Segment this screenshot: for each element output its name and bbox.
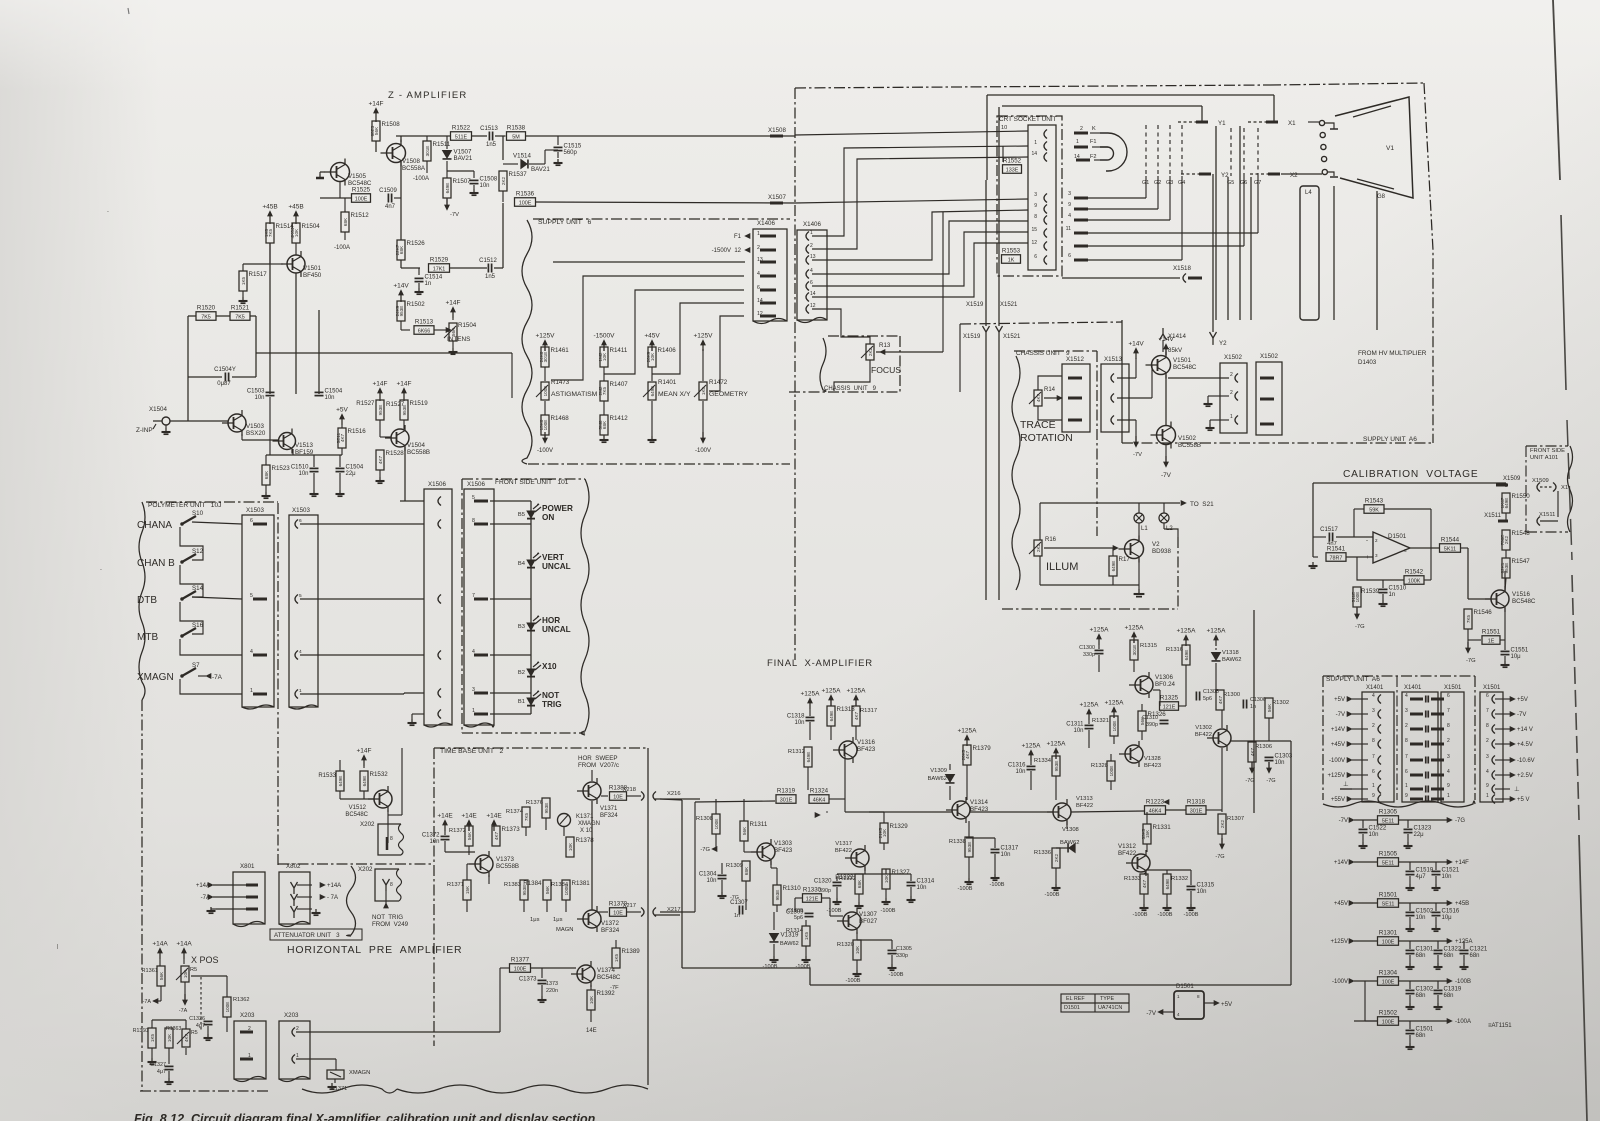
svg-text:68n: 68n	[1416, 993, 1426, 999]
svg-text:V1313: V1313	[1076, 796, 1093, 802]
svg-text:D1501: D1501	[1388, 533, 1407, 540]
svg-text:68n: 68n	[1444, 993, 1454, 999]
svg-text:V1: V1	[1386, 145, 1394, 152]
svg-text:BAW62: BAW62	[928, 776, 947, 782]
svg-text:4K7: 4K7	[854, 711, 859, 720]
svg-text:-100A: -100A	[334, 245, 350, 251]
svg-text:-7V: -7V	[1339, 818, 1348, 824]
svg-text:R1548: R1548	[1512, 530, 1531, 537]
svg-text:-100B: -100B	[958, 886, 973, 892]
svg-text:33K5: 33K5	[1141, 828, 1146, 839]
svg-text:R1325: R1325	[1160, 695, 1179, 702]
svg-text:4: 4	[1068, 213, 1071, 219]
svg-text:V1308: V1308	[1062, 827, 1079, 833]
svg-text:1: 1	[299, 688, 302, 694]
svg-text:1: 1	[250, 688, 253, 694]
svg-text:+125A: +125A	[822, 688, 842, 695]
svg-text:68K: 68K	[264, 470, 269, 479]
svg-text:R1317: R1317	[860, 708, 877, 714]
svg-text:68n: 68n	[1470, 953, 1480, 959]
svg-text:8: 8	[1034, 214, 1037, 220]
svg-text:10K: 10K	[167, 1033, 172, 1042]
svg-text:3: 3	[1034, 192, 1037, 198]
svg-text:BF422: BF422	[1118, 850, 1137, 857]
svg-text:22μ: 22μ	[1414, 832, 1425, 838]
svg-text:20K5: 20K5	[961, 749, 966, 760]
svg-text:V1505: V1505	[348, 173, 366, 180]
svg-text:X202: X202	[358, 866, 373, 873]
svg-text:R1537: R1537	[509, 171, 528, 178]
svg-text:-100B: -100B	[881, 908, 896, 914]
svg-text:R1512: R1512	[351, 212, 370, 219]
svg-text:+14F: +14F	[446, 300, 461, 307]
svg-text:10n: 10n	[794, 720, 804, 726]
svg-text:68n: 68n	[1416, 953, 1426, 959]
svg-text:1: 1	[1447, 793, 1450, 799]
svg-text:FRONT SIDE: FRONT SIDE	[1530, 448, 1565, 454]
svg-text:B1: B1	[518, 699, 525, 705]
svg-text:X10: X10	[542, 662, 557, 671]
svg-text:R1533: R1533	[318, 773, 336, 779]
svg-text:C1322: C1322	[1444, 947, 1462, 953]
svg-text:10K: 10K	[568, 842, 573, 851]
svg-text:R1315: R1315	[1140, 643, 1157, 649]
svg-text:R13: R13	[879, 342, 891, 349]
svg-text:133E: 133E	[1006, 167, 1019, 173]
svg-text:+14F: +14F	[373, 381, 388, 388]
svg-text:-100V: -100V	[1329, 758, 1345, 764]
svg-text:C1304: C1304	[699, 872, 717, 878]
svg-text:C1300: C1300	[1079, 645, 1095, 651]
svg-text:24K0: 24K0	[539, 351, 544, 362]
svg-text:100E: 100E	[1112, 721, 1117, 732]
svg-text:+14A: +14A	[152, 941, 168, 948]
svg-text:100K: 100K	[1408, 578, 1421, 584]
svg-text:L4: L4	[1305, 190, 1312, 196]
svg-text:+5V: +5V	[1517, 697, 1528, 703]
svg-text:1: 1	[1230, 414, 1233, 420]
svg-text:C1517: C1517	[1320, 527, 1338, 533]
svg-text:2: 2	[1372, 723, 1375, 729]
svg-text:X1508: X1508	[768, 127, 786, 134]
svg-text:BF324: BF324	[601, 927, 620, 934]
svg-text:X1521: X1521	[1003, 334, 1021, 340]
svg-text:BC548C: BC548C	[1512, 598, 1536, 605]
svg-text:V1512: V1512	[349, 805, 367, 811]
svg-text:BAW62: BAW62	[780, 941, 799, 947]
svg-text:953E: 953E	[544, 803, 549, 814]
svg-text:C1504: C1504	[325, 389, 343, 395]
svg-text:V1516: V1516	[1512, 591, 1530, 598]
svg-text:649E: 649E	[362, 776, 367, 787]
svg-text:BC558B: BC558B	[407, 449, 430, 456]
svg-text:1: 1	[810, 230, 813, 236]
svg-text:+45B: +45B	[262, 204, 277, 211]
svg-text:X1521: X1521	[1000, 302, 1018, 308]
svg-text:BC558B: BC558B	[1178, 442, 1201, 449]
svg-text:10: 10	[1001, 125, 1007, 131]
svg-text:C1327: C1327	[150, 1062, 166, 1068]
svg-text:R1383: R1383	[504, 882, 521, 888]
svg-text:XMAGN: XMAGN	[349, 1070, 370, 1076]
svg-text:-100V: -100V	[537, 448, 553, 454]
svg-text:C1301: C1301	[1416, 947, 1434, 953]
svg-text:1E: 1E	[1488, 638, 1495, 644]
svg-text:56K: 56K	[451, 327, 456, 336]
svg-text:.: .	[107, 207, 109, 214]
svg-text:X1511: X1511	[1484, 513, 1502, 519]
svg-text:1K47: 1K47	[1500, 497, 1505, 508]
svg-text:X 10: X 10	[580, 828, 593, 834]
svg-text:SUPPLY UNIT A6: SUPPLY UNIT A6	[1326, 676, 1380, 683]
svg-text:1: 1	[1486, 793, 1489, 799]
svg-text:121E: 121E	[806, 896, 819, 902]
svg-text:R1513: R1513	[415, 319, 434, 326]
svg-text:R1372: R1372	[449, 828, 466, 834]
svg-text:X1406: X1406	[803, 221, 821, 228]
svg-text:FROM HV MULTIPLIER: FROM HV MULTIPLIER	[1358, 350, 1427, 357]
svg-text:8: 8	[1197, 994, 1200, 999]
svg-text:X1519: X1519	[966, 302, 984, 308]
svg-text:15K0: 15K0	[539, 419, 544, 430]
svg-text:R16: R16	[1045, 537, 1057, 543]
svg-text:BF324: BF324	[600, 813, 618, 819]
svg-text:5p6: 5p6	[1203, 696, 1212, 702]
svg-text:R1327: R1327	[892, 869, 911, 876]
svg-text:4: 4	[810, 268, 813, 274]
svg-text:5E11: 5E11	[1382, 818, 1394, 824]
svg-text:C1309: C1309	[787, 908, 803, 914]
svg-text:3: 3	[1372, 708, 1375, 714]
svg-text:17K1: 17K1	[433, 266, 446, 272]
svg-text:V1302: V1302	[1195, 725, 1212, 731]
svg-text:C1314: C1314	[917, 879, 935, 885]
svg-text:R1411: R1411	[610, 347, 628, 354]
svg-text:R1528: R1528	[386, 450, 405, 457]
svg-text:BF423: BF423	[1144, 763, 1161, 769]
svg-text:R1334: R1334	[1034, 758, 1052, 764]
svg-text:21K5: 21K5	[878, 827, 883, 838]
svg-text:CHANA: CHANA	[137, 520, 172, 531]
svg-text:R1389: R1389	[622, 948, 641, 955]
svg-text:5: 5	[299, 593, 302, 599]
svg-text:ROTATION: ROTATION	[1020, 432, 1073, 444]
svg-text:G8: G8	[1377, 194, 1386, 200]
svg-text:+125A: +125A	[958, 728, 978, 735]
svg-text:BF423: BF423	[774, 847, 793, 854]
svg-text:+14E: +14E	[437, 813, 453, 820]
svg-text:POLYMETER UNIT 10J: POLYMETER UNIT 10J	[148, 502, 221, 509]
svg-text:V1373: V1373	[496, 856, 514, 863]
svg-text:10μ: 10μ	[1511, 654, 1522, 660]
svg-text:-10.6V: -10.6V	[1517, 758, 1535, 764]
svg-text:C1326: C1326	[189, 1016, 205, 1022]
svg-text:R1392: R1392	[597, 990, 616, 997]
svg-text:649E: 649E	[1165, 879, 1170, 890]
svg-text:C1513: C1513	[480, 126, 498, 132]
svg-text:+125V: +125V	[1330, 939, 1348, 945]
svg-text:1K8: 1K8	[264, 228, 269, 237]
svg-text:V1504: V1504	[407, 442, 425, 449]
svg-text:9: 9	[1068, 202, 1071, 208]
svg-text:R1322: R1322	[839, 876, 856, 882]
svg-text:+14V: +14V	[1158, 336, 1174, 343]
svg-text:10n: 10n	[1073, 728, 1083, 734]
svg-text:6: 6	[757, 285, 760, 291]
svg-text:+125V: +125V	[694, 333, 714, 340]
svg-text:1K5: 1K5	[241, 276, 246, 285]
svg-text:R1550: R1550	[1512, 493, 1531, 500]
svg-text:⊥: ⊥	[1514, 786, 1520, 793]
svg-text:1K5: 1K5	[614, 953, 619, 962]
svg-text:R1373: R1373	[502, 826, 521, 833]
svg-text:R1527: R1527	[356, 400, 375, 407]
svg-text:-7V: -7V	[1161, 472, 1172, 479]
svg-text:301E: 301E	[1132, 645, 1137, 656]
svg-text:7: 7	[1372, 754, 1375, 760]
svg-text:S14: S14	[192, 585, 204, 592]
svg-text:-7G: -7G	[1355, 624, 1365, 630]
svg-text:R1529: R1529	[430, 257, 449, 264]
svg-text:2: 2	[1230, 372, 1233, 378]
svg-text:R1517: R1517	[249, 271, 268, 278]
svg-text:68E3: 68E3	[370, 125, 375, 136]
svg-text:+125V: +125V	[1327, 773, 1345, 779]
svg-text:CHAN B: CHAN B	[137, 558, 175, 569]
svg-text:4μ7: 4μ7	[1416, 874, 1427, 880]
svg-text:UA741CN: UA741CN	[1098, 1005, 1122, 1011]
svg-text:R1338: R1338	[949, 839, 966, 845]
svg-text:EL REF: EL REF	[1066, 996, 1085, 1002]
svg-text:8: 8	[390, 836, 393, 842]
svg-text:10n: 10n	[706, 878, 716, 884]
svg-text:46K4: 46K4	[813, 797, 826, 803]
svg-text:+125A: +125A	[1022, 743, 1042, 750]
svg-text:R1300: R1300	[1223, 692, 1240, 698]
svg-text:4: 4	[1372, 693, 1375, 699]
svg-text:-7G: -7G	[1466, 658, 1476, 664]
svg-text:68K: 68K	[343, 217, 348, 226]
svg-text:3: 3	[1068, 191, 1071, 197]
svg-text:10n: 10n	[429, 839, 439, 845]
svg-text:2: 2	[1447, 738, 1450, 744]
svg-text:X203: X203	[284, 1012, 299, 1019]
svg-text:14E: 14E	[586, 1028, 597, 1034]
svg-text:-7A: -7A	[143, 999, 152, 1005]
svg-text:R1331: R1331	[1153, 824, 1172, 831]
svg-text:V1501: V1501	[303, 265, 321, 272]
svg-text:56K: 56K	[467, 831, 472, 840]
svg-text:C1311: C1311	[1066, 722, 1084, 728]
svg-text:560p: 560p	[564, 150, 578, 156]
svg-text:XMAGN: XMAGN	[137, 672, 174, 683]
svg-text:4K7: 4K7	[184, 1033, 189, 1042]
svg-text:BD938: BD938	[1152, 548, 1171, 555]
svg-text:-100B: -100B	[827, 908, 842, 914]
svg-text:TRACE: TRACE	[1020, 419, 1056, 431]
svg-text:953E: 953E	[402, 405, 407, 416]
svg-text:R1308: R1308	[696, 816, 713, 822]
svg-text:X1512: X1512	[1066, 356, 1084, 363]
svg-text:56K: 56K	[545, 885, 550, 894]
svg-text:2K2: 2K2	[1054, 853, 1059, 862]
svg-text:-7G: -7G	[730, 895, 739, 901]
svg-text:-7V: -7V	[450, 212, 459, 218]
svg-text:X1502: X1502	[1224, 354, 1242, 361]
svg-text:+125A: +125A	[801, 691, 821, 698]
svg-text:56K: 56K	[159, 971, 164, 980]
svg-text:BAW62: BAW62	[1222, 657, 1241, 663]
svg-text:R1363: R1363	[166, 1026, 181, 1032]
svg-text:BF0.24: BF0.24	[1155, 681, 1176, 688]
svg-text:R1362: R1362	[233, 997, 249, 1003]
svg-text:X216: X216	[667, 791, 681, 797]
svg-text:6: 6	[1404, 548, 1407, 553]
svg-text:X1518: X1518	[1173, 265, 1191, 272]
svg-text:10K: 10K	[183, 969, 188, 978]
svg-text:R1504: R1504	[458, 322, 477, 329]
svg-text:CALIBRATION VOLTAGE: CALIBRATION VOLTAGE	[1343, 469, 1478, 480]
svg-text:10n: 10n	[1197, 889, 1207, 895]
svg-text:R1521: R1521	[231, 305, 250, 312]
svg-text:R1305: R1305	[1379, 809, 1398, 816]
svg-text:FROM V249: FROM V249	[372, 921, 409, 928]
svg-text:C1510: C1510	[1389, 586, 1407, 592]
svg-text:R1551: R1551	[1482, 629, 1501, 636]
svg-text:+45V: +45V	[644, 333, 660, 340]
svg-text:BAV21: BAV21	[531, 166, 550, 173]
svg-text:11: 11	[1066, 226, 1071, 232]
svg-text:B3: B3	[518, 624, 525, 630]
svg-text:2: 2	[296, 1026, 299, 1032]
svg-text:1n: 1n	[734, 913, 740, 919]
svg-text:FRONT SIDE UNIT 101: FRONT SIDE UNIT 101	[495, 479, 569, 486]
svg-text:1K5: 1K5	[804, 931, 809, 940]
svg-text:V1372: V1372	[601, 920, 619, 927]
svg-text:X1509: X1509	[1503, 476, 1521, 482]
svg-text:2: 2	[248, 1026, 251, 1032]
svg-text:X1406: X1406	[757, 220, 775, 227]
svg-text:+2.5V: +2.5V	[1517, 773, 1533, 779]
svg-text:V1312: V1312	[1118, 843, 1136, 850]
svg-text:8: 8	[1447, 723, 1450, 729]
svg-text:L1: L1	[1141, 526, 1148, 532]
svg-text:7: 7	[1447, 708, 1450, 714]
svg-text:V1514: V1514	[513, 153, 531, 160]
svg-text:12: 12	[810, 303, 816, 309]
svg-text:-7V: -7V	[1336, 712, 1345, 718]
svg-text:1K5: 1K5	[150, 1033, 155, 1042]
svg-text:68n: 68n	[1416, 1033, 1426, 1039]
svg-text:2: 2	[1405, 723, 1408, 729]
svg-text:+14F: +14F	[369, 101, 384, 108]
svg-text:9: 9	[1372, 793, 1375, 799]
svg-text:1n: 1n	[1389, 592, 1396, 598]
svg-text:10μ: 10μ	[1442, 915, 1453, 921]
svg-text:C1303: C1303	[1275, 754, 1293, 760]
svg-text:BF423: BF423	[857, 746, 876, 753]
svg-text:V1503: V1503	[246, 423, 264, 430]
svg-text:4K7: 4K7	[378, 455, 383, 464]
svg-text:X1513: X1513	[1104, 356, 1122, 363]
svg-text:V1513: V1513	[295, 442, 313, 449]
svg-text:V2: V2	[1152, 541, 1160, 548]
svg-text:C1522: C1522	[1369, 826, 1387, 832]
svg-text:-100B: -100B	[1455, 979, 1471, 985]
svg-text:S16: S16	[192, 622, 204, 629]
svg-text:-7A: -7A	[179, 1008, 188, 1014]
svg-text:X POS: X POS	[191, 955, 219, 965]
svg-text:R1522: R1522	[452, 125, 471, 132]
svg-text:R1539: R1539	[1361, 588, 1380, 595]
svg-text:68n: 68n	[1444, 953, 1454, 959]
svg-text:X1506: X1506	[467, 481, 485, 488]
svg-text:+14F: +14F	[397, 381, 412, 388]
svg-text:3: 3	[1405, 708, 1408, 714]
svg-text:X1504: X1504	[149, 406, 167, 413]
svg-text:D1501: D1501	[1064, 1005, 1080, 1011]
svg-text:C1321: C1321	[1470, 947, 1488, 953]
svg-text:1373: 1373	[546, 981, 558, 987]
svg-text:F1: F1	[734, 234, 742, 240]
svg-text:C1504Y: C1504Y	[214, 367, 236, 373]
svg-text:750E: 750E	[1500, 535, 1505, 546]
svg-text:9: 9	[1405, 793, 1408, 799]
svg-text:+14V: +14V	[393, 283, 409, 290]
svg-text:B4: B4	[518, 561, 526, 567]
svg-text:3: 3	[1375, 553, 1378, 558]
svg-text:Y1: Y1	[1218, 120, 1226, 127]
svg-text:220n: 220n	[546, 988, 558, 994]
svg-text:R1543: R1543	[1365, 498, 1384, 505]
svg-text:8: 8	[1372, 738, 1375, 744]
svg-text:S12: S12	[192, 548, 204, 555]
svg-text:-100A: -100A	[1455, 1019, 1471, 1025]
svg-text:BAW62: BAW62	[1060, 840, 1079, 846]
svg-text:26K9: 26K9	[646, 351, 651, 362]
svg-text:HORIZONTAL PRE AMPLIFIER: HORIZONTAL PRE AMPLIFIER	[287, 944, 462, 956]
svg-text:B2: B2	[518, 670, 525, 676]
svg-text:R1329: R1329	[890, 823, 909, 830]
svg-text:R1532: R1532	[370, 771, 389, 778]
svg-text:R1525: R1525	[352, 187, 371, 194]
svg-text:1n5: 1n5	[485, 274, 496, 280]
svg-text:C1319: C1319	[1444, 987, 1462, 993]
svg-text:4: 4	[1486, 769, 1489, 775]
svg-text:S10: S10	[192, 510, 204, 517]
svg-text:2: 2	[757, 245, 760, 251]
svg-text:+: +	[1366, 555, 1370, 561]
svg-text:C1510: C1510	[291, 465, 309, 471]
svg-text:R1406: R1406	[658, 347, 677, 354]
svg-text:INTENS: INTENS	[447, 336, 470, 343]
svg-text:HOR SWEEP: HOR SWEEP	[578, 755, 618, 762]
svg-text:-100B: -100B	[763, 964, 778, 970]
svg-text:330p: 330p	[1083, 652, 1095, 658]
svg-text:100E: 100E	[514, 966, 527, 972]
svg-text:V1309: V1309	[930, 768, 947, 774]
svg-text:6: 6	[250, 518, 253, 524]
svg-text:649E: 649E	[806, 752, 811, 763]
svg-text:-7G: -7G	[1245, 778, 1254, 784]
svg-text:V1307: V1307	[859, 911, 877, 918]
svg-text:X218: X218	[622, 787, 636, 793]
svg-text:R1332: R1332	[1171, 876, 1188, 882]
svg-text:9: 9	[1447, 783, 1450, 789]
svg-text:1: 1	[248, 1053, 251, 1059]
svg-text:1μs: 1μs	[530, 917, 540, 923]
svg-text:SE11: SE11	[1382, 901, 1395, 907]
